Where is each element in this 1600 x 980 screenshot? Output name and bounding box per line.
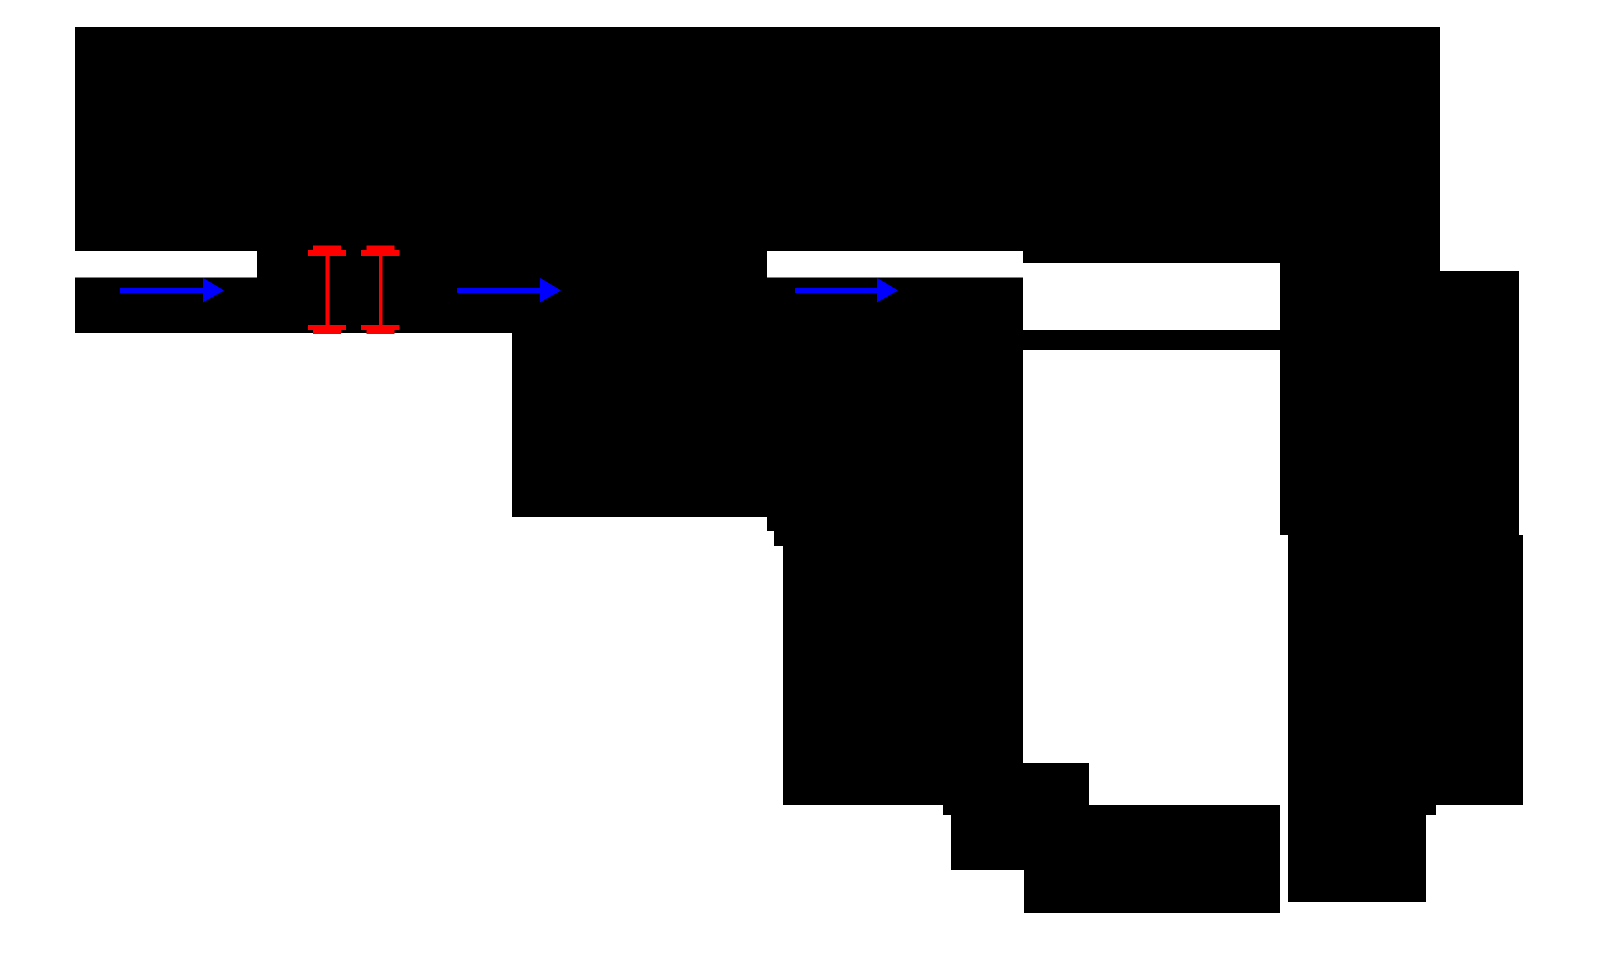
etalon mirror M2 stem xyxy=(379,256,383,325)
bottom band chunk xyxy=(1023,763,1089,806)
etalon mirror M1 stem xyxy=(326,256,330,325)
right column upper xyxy=(1280,263,1440,535)
bar between holes xyxy=(1023,330,1280,350)
left arm bottom step 2 xyxy=(951,815,1024,870)
left arm bottom step 1 xyxy=(943,805,1024,815)
block B2 column xyxy=(512,333,1023,517)
beam arrow 2 shaft xyxy=(457,288,543,293)
etalon mirror M1 top flange xyxy=(308,250,346,256)
right column lower xyxy=(1288,535,1523,805)
etalon mirror M2 bottom serif xyxy=(367,330,395,334)
right corner step 1 xyxy=(1288,805,1436,815)
etalon mirror M1 top serif xyxy=(313,246,341,251)
beam arrow 2 head xyxy=(540,278,561,303)
left arm main xyxy=(783,546,1023,805)
bottom band xyxy=(1024,805,1280,913)
right column extension xyxy=(1440,271,1519,535)
beam arrow 3 shaft xyxy=(795,288,880,293)
etalon mirror M2 top flange xyxy=(361,250,400,256)
beam arrow 3 head xyxy=(877,278,898,303)
right corner step 2 xyxy=(1288,815,1426,902)
etalon mirror M2 bottom flange xyxy=(361,325,400,330)
left arm step 1 xyxy=(767,517,1023,531)
block top band xyxy=(75,27,1440,251)
beam arrow 1 head xyxy=(203,278,224,303)
left arm step 2 xyxy=(774,531,1023,546)
etalon mirror M2 top serif xyxy=(367,246,395,251)
etalon mirror M1 bottom flange xyxy=(308,325,346,330)
block lower lip under channels xyxy=(75,278,1023,334)
block right top strip xyxy=(1023,251,1440,263)
beam arrow 1 shaft xyxy=(120,288,206,293)
block mid strip between channels xyxy=(257,251,767,278)
etalon mirror M1 bottom serif xyxy=(313,330,341,334)
